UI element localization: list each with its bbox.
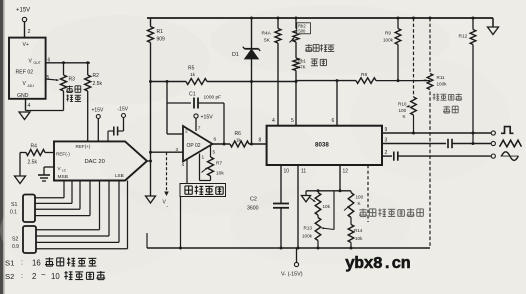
svg-text:1k: 1k <box>236 138 242 143</box>
label Vout pin 6 <box>29 58 51 66</box>
svg-text:9: 9 <box>385 127 388 133</box>
svg-text:10: 10 <box>51 272 60 281</box>
svg-text:R11: R11 <box>437 75 446 80</box>
resistor R5 <box>186 66 207 85</box>
svg-text:6: 6 <box>214 137 217 143</box>
svg-text:2: 2 <box>32 272 36 281</box>
wire pin11 <box>297 165 307 250</box>
wire rail right drop to arrow <box>492 18 494 27</box>
label pin6 <box>214 137 217 143</box>
terminal +15V (op-amp) <box>194 114 213 121</box>
wire sine output <box>382 150 392 156</box>
svg-text:3: 3 <box>385 138 388 144</box>
resistor R6 <box>230 131 249 147</box>
svg-text:R6: R6 <box>235 131 242 137</box>
svg-text:1k: 1k <box>190 72 196 78</box>
wire R14 to rail <box>350 243 353 250</box>
svg-text:ADJ: ADJ <box>28 84 35 88</box>
label REF(-) <box>56 152 70 157</box>
wire REF02 pin4 <box>26 99 31 111</box>
svg-text:3: 3 <box>176 147 179 153</box>
switch S2 <box>12 226 36 253</box>
wire Vadj to R3 wiper <box>46 79 59 81</box>
svg-text:+15V: +15V <box>201 115 214 121</box>
svg-text:100k: 100k <box>383 38 394 43</box>
wire C1 branch <box>167 82 191 135</box>
potentiometer R11 <box>427 74 447 90</box>
svg-text:8038: 8038 <box>315 142 329 149</box>
wire R8 line <box>296 80 356 82</box>
resistor R2 <box>85 63 91 142</box>
svg-text:4: 4 <box>272 118 275 124</box>
wire pin6 <box>332 79 339 126</box>
svg-text:47K: 47K <box>298 65 306 70</box>
svg-text:0.1: 0.1 <box>10 210 17 216</box>
resistor R12 <box>459 17 476 134</box>
label MSB <box>58 174 68 180</box>
arrow V- <box>163 192 169 210</box>
label 8038 <box>315 142 329 149</box>
wiper Rb2 <box>290 38 295 43</box>
svg-text:R13: R13 <box>304 226 313 231</box>
svg-text:REF 02: REF 02 <box>16 70 34 76</box>
wiper R13 link <box>322 191 334 230</box>
wire C1 to output node <box>223 103 226 146</box>
label pin2 <box>185 129 188 135</box>
wire pin7 <box>196 118 201 131</box>
svg-text:DAC 20: DAC 20 <box>85 159 105 165</box>
svg-text:R12: R12 <box>459 34 468 40</box>
terminal V- supply <box>281 248 303 278</box>
resistor R14 <box>348 218 363 243</box>
svg-text:1000 pF: 1000 pF <box>204 95 222 101</box>
label sine-distortion adj <box>359 209 423 217</box>
wire R12 to triangle line <box>472 132 475 146</box>
wire square output <box>382 127 491 133</box>
label pin3 <box>176 147 179 153</box>
wire output <box>213 143 231 145</box>
svg-text:R8: R8 <box>361 72 367 78</box>
label offset-calibration box <box>180 184 226 197</box>
waveform square <box>501 127 514 134</box>
svg-text:2: 2 <box>185 129 188 135</box>
svg-text:4: 4 <box>28 103 31 109</box>
wire box to -V rail <box>180 197 182 249</box>
terminal square out <box>491 131 495 135</box>
svg-text:C2: C2 <box>250 197 257 203</box>
svg-text:S2: S2 <box>12 237 18 243</box>
wire after cap <box>452 143 491 145</box>
svg-text:REF(-): REF(-) <box>56 152 70 157</box>
wire R6 to 8038 pin8 <box>249 138 267 145</box>
capacitor C2 3600 <box>247 197 289 212</box>
svg-text:~: ~ <box>41 271 46 280</box>
svg-text:R14: R14 <box>354 228 363 233</box>
svg-text:10k: 10k <box>355 236 363 241</box>
wire C2 to rail <box>280 208 283 250</box>
wiper R11 <box>415 79 427 81</box>
wire Vout bus <box>46 61 90 64</box>
wire pin10 <box>281 165 289 203</box>
svg-text:500: 500 <box>298 29 306 34</box>
potentiometer R7 <box>208 157 225 181</box>
wire R13 to rail <box>317 241 320 250</box>
op-amp U-OP02 <box>183 126 213 162</box>
svg-text:10k: 10k <box>323 204 331 209</box>
wires DAC bits to S2 <box>36 181 128 249</box>
svg-text:R4A: R4A <box>262 31 272 37</box>
wiper RB <box>344 206 350 211</box>
svg-text:1: 1 <box>202 155 205 161</box>
svg-text:100k: 100k <box>302 234 313 239</box>
svg-text:+15V: +15V <box>92 108 104 114</box>
svg-text::: : <box>21 260 23 267</box>
DAC U-DAC20 <box>54 141 147 180</box>
svg-text:Rb1: Rb1 <box>298 59 307 64</box>
terminal +15V (REF02 supply) <box>16 7 30 21</box>
terminal -15V (DAC) <box>118 107 129 132</box>
svg-text:D1: D1 <box>232 52 239 58</box>
wire gnd stub <box>305 191 307 196</box>
wire R10 column <box>412 17 415 98</box>
wire R11 column <box>429 17 432 74</box>
wire pin5 <box>291 71 298 126</box>
potentiometer R3 <box>61 63 76 111</box>
IC U-8038 <box>267 126 382 165</box>
wire V- arrow <box>166 152 168 192</box>
potentiometer R10 <box>398 97 416 135</box>
capacitor C1 1000pF <box>189 92 224 109</box>
wire feedback bus <box>149 80 186 83</box>
svg-text:12: 12 <box>343 168 349 174</box>
wiper RA <box>310 198 316 202</box>
potentiometer RB 100K <box>348 191 363 218</box>
resistor R9 <box>383 17 401 81</box>
label GND <box>17 93 29 99</box>
svg-text:5: 5 <box>291 118 294 124</box>
svg-text:R9: R9 <box>385 31 391 36</box>
svg-text:V+: V+ <box>23 42 29 48</box>
svg-text:GND: GND <box>17 93 29 99</box>
wire DAC out to op-amp <box>147 151 183 163</box>
resistor R4A <box>262 17 282 44</box>
wire pin1 to R7 <box>200 154 211 181</box>
label Vadj pin 5 <box>23 75 50 88</box>
zener diode D1 <box>232 47 260 59</box>
svg-text:2: 2 <box>385 150 388 156</box>
label R2 2.5k <box>93 73 103 87</box>
resistor R4 <box>26 144 54 166</box>
resistor R8 <box>356 72 376 83</box>
wire pin4 <box>272 43 278 126</box>
wiper R7 <box>202 168 208 173</box>
svg-text:-15V: -15V <box>118 107 129 113</box>
svg-text:10k: 10k <box>216 171 224 177</box>
ground R4 <box>15 176 26 184</box>
wire pin12 <box>340 165 348 191</box>
wire pin4 stub <box>182 159 188 184</box>
wire dashed pin-12 aux <box>367 165 369 222</box>
label REF 02 <box>16 70 34 76</box>
svg-text::: : <box>21 273 23 280</box>
svg-text:4: 4 <box>182 162 185 168</box>
label LSB <box>115 173 124 178</box>
svg-text:R3: R3 <box>69 77 76 83</box>
wires DAC bits to S1 <box>35 181 90 216</box>
resistor Rb1 <box>293 42 306 71</box>
waveform triangle <box>500 140 522 147</box>
capacitor bypass (DAC) <box>108 127 124 142</box>
label duty-symmetry adj <box>305 44 334 66</box>
wire inverting input <box>167 133 183 135</box>
svg-text:2.5k: 2.5k <box>93 81 103 87</box>
svg-text:OUT: OUT <box>34 61 41 65</box>
svg-text:S1: S1 <box>5 259 14 268</box>
potentiometer RA 10k <box>315 193 330 216</box>
ground Vlc <box>38 175 50 181</box>
svg-text:C1: C1 <box>189 92 196 98</box>
svg-text:5: 5 <box>213 150 216 156</box>
wire R3 bottom to gnd node <box>26 110 64 112</box>
svg-text:5: 5 <box>47 75 50 81</box>
svg-text:100k: 100k <box>437 82 448 87</box>
svg-text:7: 7 <box>198 126 201 132</box>
wire pin12 horizontal <box>306 189 351 192</box>
label sine-amplitude adj <box>433 94 462 114</box>
svg-text:R2: R2 <box>93 73 100 79</box>
label REF(+) <box>76 144 91 149</box>
svg-text:11: 11 <box>301 168 306 174</box>
svg-text:0.9: 0.9 <box>12 244 19 250</box>
wire -V rail <box>147 233 430 250</box>
label DAC 20 <box>85 159 105 165</box>
wire pin2 to REF02 <box>25 22 31 38</box>
wire R4 to ground <box>20 153 26 177</box>
wire D1 bottom <box>250 59 253 146</box>
svg-text:5K: 5K <box>264 38 271 44</box>
wire triangle output <box>382 138 446 144</box>
svg-text:100: 100 <box>399 108 407 113</box>
svg-text:LSB: LSB <box>115 173 124 178</box>
svg-text:S1: S1 <box>11 202 17 208</box>
svg-text:+15V: +15V <box>16 7 30 13</box>
svg-text:10: 10 <box>284 168 290 174</box>
svg-text:R1: R1 <box>157 29 164 35</box>
svg-text:ybx8.cn: ybx8.cn <box>345 254 410 273</box>
caption S1 <box>5 258 96 268</box>
ground arrow top-right <box>488 27 499 35</box>
svg-text:3600: 3600 <box>247 206 259 212</box>
svg-text:909: 909 <box>157 37 166 43</box>
potentiometer Rb2 <box>293 17 310 43</box>
svg-text:OP 02: OP 02 <box>187 143 201 149</box>
svg-text:R4: R4 <box>31 144 38 150</box>
wire R8 right <box>376 79 430 82</box>
resistor R1 <box>148 18 166 43</box>
svg-text:R5: R5 <box>188 66 195 72</box>
svg-text:8: 8 <box>259 138 262 144</box>
potentiometer R13 <box>302 215 321 241</box>
wiper R10 <box>407 105 411 107</box>
svg-text:R10: R10 <box>398 102 407 107</box>
terminal +15V (DAC) <box>92 108 104 142</box>
svg-text:16: 16 <box>32 259 41 268</box>
capacitor C-sine <box>394 152 398 161</box>
svg-text:2: 2 <box>28 29 31 35</box>
terminal sine out <box>491 154 495 158</box>
svg-text:V- (-15V): V- (-15V) <box>281 272 303 278</box>
wire Vlc to ground <box>44 167 54 175</box>
svg-text:S2: S2 <box>5 272 14 281</box>
wire D1 top <box>250 17 253 49</box>
svg-text:R7: R7 <box>216 161 222 167</box>
wire sine to terminal <box>398 155 491 157</box>
capacitor C-triangle <box>448 139 452 148</box>
ground below DAC output <box>146 196 156 203</box>
label V+ <box>23 42 29 48</box>
wire pin5 stub <box>211 146 216 157</box>
terminal triangle out <box>491 141 495 145</box>
watermark ybx8.cn <box>345 254 410 273</box>
wire bus right <box>207 80 296 83</box>
label full-scale-adjust <box>66 86 81 102</box>
label Vlc <box>58 166 67 172</box>
svg-text:2.5k: 2.5k <box>28 160 38 166</box>
switch S1 <box>10 195 35 223</box>
svg-text:6: 6 <box>332 118 335 124</box>
voltage reference U-REF02 <box>9 38 46 99</box>
ground distortion pot <box>301 196 310 202</box>
caption S2 <box>5 271 105 282</box>
ground REF02 <box>19 112 30 120</box>
wire R11 down to -V rail <box>429 92 431 249</box>
wire R1 column <box>150 43 152 197</box>
wire top +V rail <box>147 17 493 19</box>
waveform sine <box>501 152 519 161</box>
svg-text:REF(+): REF(+) <box>76 144 91 149</box>
svg-text:MSB: MSB <box>58 174 68 180</box>
svg-text:100: 100 <box>356 195 364 200</box>
svg-text:LC: LC <box>62 169 67 173</box>
